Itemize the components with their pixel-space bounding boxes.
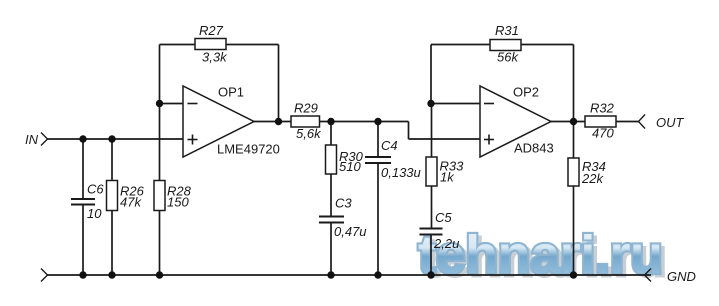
- wire feedback2 top left: [431, 44, 490, 46]
- terminal GND arrow: [645, 269, 652, 282]
- junction OP2 output: [570, 118, 577, 125]
- junction C4 node: [374, 118, 381, 125]
- wire R26 top: [111, 139, 113, 181]
- resistor R31: [490, 40, 521, 51]
- svg-text:150: 150: [167, 194, 189, 209]
- wire OP2 output: [550, 121, 585, 123]
- svg-text:R27: R27: [199, 23, 224, 38]
- svg-text:R31: R31: [495, 23, 519, 38]
- resistor R26: [107, 181, 118, 211]
- junction R30 node: [327, 118, 334, 125]
- svg-text:R29: R29: [294, 101, 318, 116]
- svg-text:R32: R32: [590, 101, 615, 116]
- svg-text:510: 510: [339, 159, 361, 174]
- wire C4 top: [377, 122, 379, 158]
- wire C4 to ground: [377, 163, 379, 275]
- wire C6 bottom: [82, 205, 84, 276]
- wire jog down: [408, 122, 410, 140]
- wire R32 to OUT: [616, 121, 639, 123]
- terminal IN arrow: [41, 133, 48, 146]
- svg-text:LME49720: LME49720: [217, 142, 280, 157]
- wire OP1 output: [254, 121, 291, 123]
- wire OP1 minus input: [160, 103, 184, 105]
- svg-text:5,6k: 5,6k: [296, 126, 322, 141]
- wire feedback1 top right: [226, 44, 279, 46]
- svg-text:22k: 22k: [581, 171, 604, 186]
- wire R26 bottom: [111, 211, 113, 276]
- wire feedback1 right vertical: [278, 45, 280, 122]
- watermark tehnari.ru: [418, 225, 668, 288]
- svg-text:C6: C6: [87, 182, 104, 197]
- wire ground rail: [48, 274, 652, 276]
- capacitor C5 plates: [420, 228, 443, 230]
- junction gnd-C6: [79, 271, 86, 278]
- junction gnd-R34: [570, 271, 577, 278]
- wire IN to OP1 plus input: [48, 138, 184, 140]
- op-amp OP2: [480, 86, 551, 157]
- resistor R28: [154, 181, 165, 211]
- svg-text:56k: 56k: [497, 50, 519, 65]
- resistor R32: [585, 116, 616, 127]
- junction gnd-C4: [374, 271, 381, 278]
- svg-text:tehnari.ru: tehnari.ru: [418, 225, 664, 285]
- svg-text:1k: 1k: [440, 170, 455, 185]
- wire C3 to ground: [330, 223, 332, 276]
- svg-text:10: 10: [87, 206, 102, 221]
- svg-text:OP1: OP1: [218, 85, 244, 100]
- wire feedback2 right vertical: [573, 45, 575, 122]
- capacitor C3 plates: [319, 216, 344, 218]
- resistor R34: [568, 158, 579, 186]
- svg-text:0,47u: 0,47u: [334, 224, 367, 239]
- svg-text:AD843: AD843: [514, 141, 554, 156]
- junction gnd-C3: [327, 271, 334, 278]
- wire R30 top: [330, 122, 332, 146]
- svg-text:OP2: OP2: [513, 85, 539, 100]
- wire feedback2 left vertical: [430, 45, 432, 104]
- wire C5 to ground: [430, 235, 432, 276]
- svg-text:3,3k: 3,3k: [202, 50, 228, 65]
- junction gnd-C5: [427, 271, 434, 278]
- junction input-C6: [79, 135, 86, 142]
- junction input-R26: [108, 135, 115, 142]
- svg-text:IN: IN: [25, 132, 39, 147]
- wire R33 to C5: [431, 186, 433, 229]
- svg-text:47k: 47k: [120, 194, 142, 209]
- wire R34 to ground: [573, 186, 575, 275]
- junction OP2 minus node: [427, 100, 434, 107]
- resistor R33: [426, 157, 437, 186]
- svg-text:C3: C3: [335, 196, 352, 211]
- svg-text:0,133u: 0,133u: [381, 165, 421, 180]
- junction gnd-R28: [156, 271, 163, 278]
- wire minus node to R33: [431, 104, 433, 158]
- wire R28 to ground: [159, 211, 161, 276]
- wire R30 to C3: [330, 174, 332, 217]
- terminal OUT arrow: [639, 115, 646, 129]
- resistor R27: [195, 39, 226, 50]
- wire C6 top: [82, 139, 84, 199]
- wire OP2 minus input: [431, 103, 480, 105]
- svg-text:OUT: OUT: [656, 115, 685, 130]
- terminal ground left arrow: [41, 269, 48, 282]
- resistor R29: [291, 116, 320, 127]
- resistor R30: [326, 145, 337, 174]
- wire R29 to jog: [320, 121, 409, 123]
- junction gnd-R26: [108, 271, 115, 278]
- svg-text:470: 470: [592, 126, 614, 141]
- wire feedback1 left vertical: [159, 45, 161, 104]
- wire jog to OP2 plus input: [409, 138, 481, 140]
- wire feedback2 top right: [521, 44, 574, 46]
- svg-text:GND: GND: [667, 269, 696, 284]
- wire R34 top: [573, 122, 575, 159]
- wire minus node to R28: [159, 104, 161, 181]
- junction OP1 output: [275, 118, 282, 125]
- capacitor C6 plates: [71, 198, 95, 200]
- capacitor C4 plates: [365, 156, 391, 158]
- svg-text:2,2u: 2,2u: [433, 236, 459, 251]
- svg-text:C5: C5: [435, 210, 452, 225]
- svg-text:C4: C4: [381, 138, 398, 153]
- wire feedback1 top left: [160, 44, 196, 46]
- junction OP1 minus node: [156, 100, 163, 107]
- op-amp OP1: [183, 86, 254, 157]
